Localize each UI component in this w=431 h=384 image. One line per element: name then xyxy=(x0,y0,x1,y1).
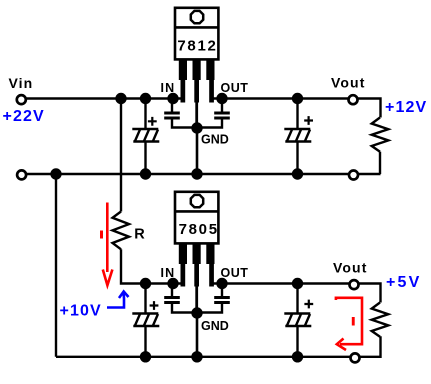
svg-text:+10V: +10V xyxy=(60,302,102,319)
svg-text:GND: GND xyxy=(201,133,229,147)
svg-text:+22V: +22V xyxy=(3,108,45,125)
svg-text:7805: 7805 xyxy=(179,221,219,238)
svg-text:R: R xyxy=(134,226,146,242)
svg-text:+5V: +5V xyxy=(386,274,422,291)
svg-text:IN: IN xyxy=(161,81,176,95)
svg-text:OUT: OUT xyxy=(221,266,249,280)
svg-text:Vout: Vout xyxy=(331,74,365,90)
svg-text:7812: 7812 xyxy=(177,38,217,55)
svg-text:Vout: Vout xyxy=(333,259,367,275)
svg-text:+12V: +12V xyxy=(385,99,427,116)
svg-text:Vin: Vin xyxy=(9,75,34,91)
svg-text:OUT: OUT xyxy=(221,81,249,95)
svg-text:GND: GND xyxy=(201,319,229,333)
svg-text:IN: IN xyxy=(161,266,176,280)
